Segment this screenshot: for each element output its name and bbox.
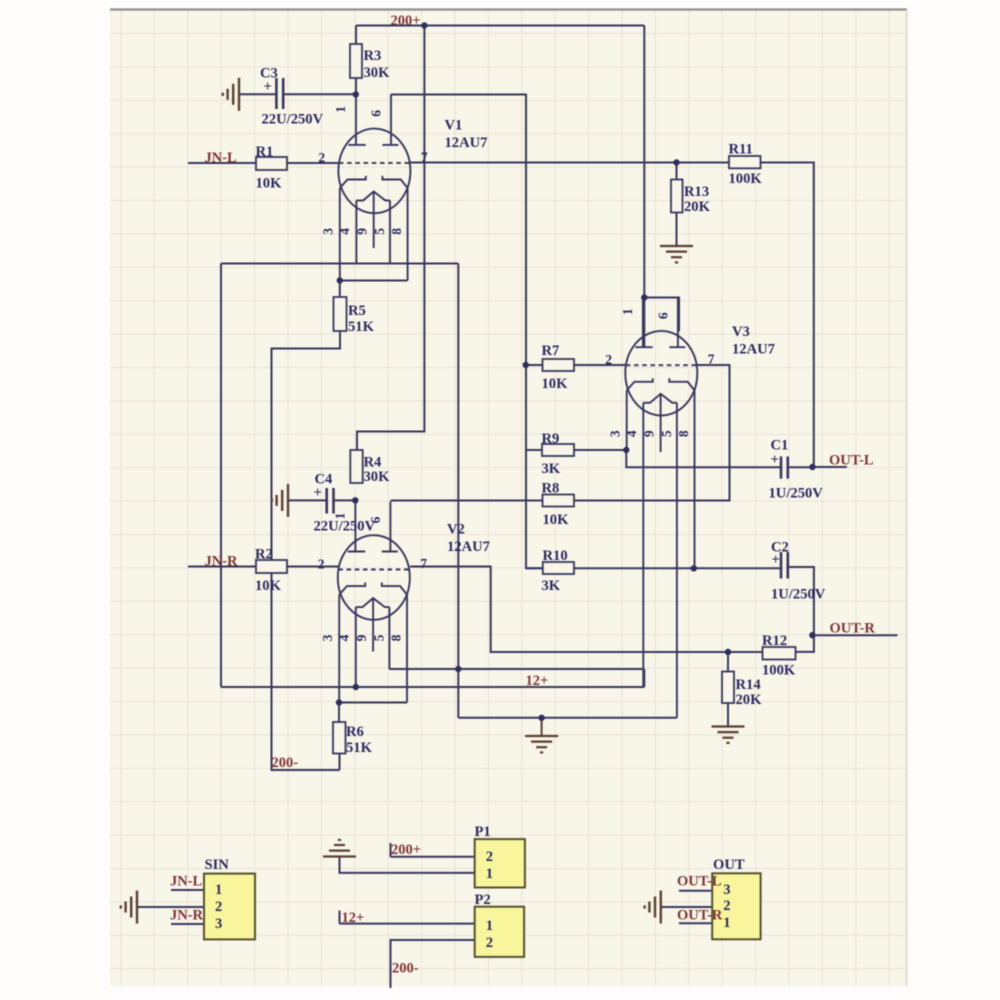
svg-text:P2: P2 [475,892,491,908]
junction R3 / C3 / V1 pin1 [353,91,359,97]
wire heater line A V2 pin5 to V3 pin4 column [389,668,644,670]
svg-text:2: 2 [605,352,612,367]
svg-text:6: 6 [369,110,384,117]
junction R10 / V3 pin8 / C2 [691,565,697,571]
junction OUT-L node [809,464,815,470]
svg-text:3: 3 [215,916,222,932]
svg-text:30K: 30K [364,469,391,485]
resistor R11 body [729,156,761,168]
wire R13 top lead [676,163,678,180]
schematic sheet background [110,9,908,986]
junction 200+ rail / R4 drop [421,22,427,28]
svg-text:8: 8 [389,228,404,235]
resistor R7 body [543,359,575,371]
svg-text:V3: V3 [732,324,750,340]
triode tube V1 12AU7 [338,95,410,281]
svg-text:200-: 200- [392,961,419,977]
svg-text:20K: 20K [736,692,763,708]
wire R10 left lead [526,567,543,569]
svg-text:C4: C4 [315,472,334,488]
svg-text:JN-R: JN-R [170,908,204,924]
ground (heater rail) [525,736,558,752]
svg-text:R5: R5 [348,303,366,319]
svg-text:9: 9 [354,228,369,235]
svg-text:1: 1 [215,882,222,898]
svg-text:7: 7 [708,352,715,367]
svg-text:2: 2 [215,899,222,915]
svg-text:12+: 12+ [526,673,549,689]
svg-text:4: 4 [337,228,352,235]
wire JN-R to SIN pin 3 [171,923,204,925]
svg-text:1: 1 [723,915,730,931]
svg-text:JN-R: JN-R [205,554,239,570]
connector SIN box [204,874,255,940]
svg-text:SIN: SIN [205,857,230,873]
svg-text:1: 1 [333,106,348,113]
wire V3 cathode down to C1 [626,450,780,467]
wire R13 bottom to ground [676,213,678,246]
wire V2 cathode bus pins 3-8 [339,702,407,704]
junction OUT-R node [809,632,815,638]
svg-text:R10: R10 [543,548,568,564]
svg-text:7: 7 [421,149,428,164]
resistor R3 body [350,44,362,78]
svg-text:9: 9 [354,634,369,641]
svg-text:1: 1 [486,866,493,882]
wire V3 plate junction jog to pin6 [644,298,679,332]
svg-text:1: 1 [486,918,493,934]
svg-text:R11: R11 [729,142,753,158]
ground (OUT shield) [645,891,661,924]
svg-text:V1: V1 [445,118,463,134]
svg-text:200+: 200+ [391,13,421,29]
svg-text:OUT-L: OUT-L [829,453,874,469]
svg-text:2: 2 [486,849,493,865]
wire ground to P1 pin 1 [340,857,475,873]
resistor R5 body [334,297,347,331]
wire ground to OUT pin 2 [661,906,712,908]
svg-text:8: 8 [676,430,691,437]
svg-text:3K: 3K [542,461,561,477]
svg-text:3K: 3K [542,578,561,594]
svg-text:5: 5 [659,430,674,437]
svg-text:3: 3 [320,634,335,641]
wire JN-R stub to R2 [188,566,256,568]
resistor R4 body [350,450,362,483]
svg-text:R13: R13 [684,184,709,200]
wire V2 pin7 grid-B drop to R12 line [410,567,762,653]
resistor R6 body [333,722,346,754]
wire JN-L stub to R1 [188,162,256,164]
wire OUT-R stub [812,634,897,636]
svg-text:2: 2 [318,557,325,572]
wire R5 top lead [339,281,341,298]
svg-text:JN-L: JN-L [170,874,203,890]
wire left drop junction to R7 [526,364,543,366]
wire 12+ to P2 pin 1 [340,911,475,924]
wire R6 top to V2 cathode bus [338,703,340,723]
wire heater loop left side down to 12+ rail [220,264,222,688]
triode tube V3 12AU7 [625,297,697,718]
wire R7 to V3 grid pin2 [574,364,626,366]
svg-text:+: + [771,452,779,468]
wire OUT-R to OUT pin 1 [679,922,712,924]
svg-text:4: 4 [624,430,639,437]
connector P1 box [475,839,525,887]
wire R14 bottom to ground [727,703,729,726]
wire R3 top lead [355,26,357,45]
svg-text:3: 3 [607,430,622,437]
wire V1 cathode bus pins 3-8 [340,280,408,282]
junction heater line A / gnd drop [455,666,461,672]
connector OUT box [712,873,760,939]
ground (C3 reference) [223,78,239,111]
wire R5 bottom to 200- drop [272,331,341,770]
wire 12+ rail line B [221,669,644,687]
junction R13 top on V1 pin7 net [673,159,679,165]
svg-text:R7: R7 [542,343,560,359]
resistor R9 body [542,444,574,456]
resistor R14 body [722,672,734,704]
svg-text:R14: R14 [736,677,762,693]
svg-text:8: 8 [388,634,403,641]
svg-text:P1: P1 [475,824,491,840]
svg-text:R1: R1 [256,144,274,160]
svg-text:2: 2 [486,935,493,951]
wire R1 to V1 grid pin2 [287,162,339,164]
svg-text:200+: 200+ [391,842,421,858]
svg-text:6: 6 [655,312,670,319]
svg-text:12+: 12+ [342,910,365,926]
resistor R8 body [543,495,575,507]
resistor R12 body [763,647,796,660]
capacitor C2 plates [781,552,788,579]
junction V1 pin6 drop / R7 [523,362,529,368]
wire R14 top lead [727,652,729,672]
capacitor C4 plates [327,488,334,514]
svg-text:12AU7: 12AU7 [732,342,775,358]
junction V1 cathode / R5 [337,277,343,283]
wire ground stem on line C [541,718,543,736]
connector P2 box [475,907,524,957]
junction line C ground [538,715,544,721]
wire V2 pin6 plate-B to R8 line [391,500,543,502]
triode tube V2 12AU7 [338,502,410,703]
wire V3 pin7 grid-B down to R8 [574,365,730,501]
ground (SIN shield) [121,891,137,924]
svg-text:5: 5 [371,634,386,641]
wire V3 pin1 plate lead [643,298,645,348]
svg-text:3: 3 [723,882,730,898]
svg-text:1U/250V: 1U/250V [769,486,824,502]
svg-text:12AU7: 12AU7 [447,539,490,555]
svg-text:9: 9 [641,430,656,437]
svg-text:100K: 100K [762,663,796,679]
svg-text:3: 3 [320,228,335,235]
svg-text:OUT-R: OUT-R [830,621,876,637]
wire C3 right plate to V1 plate junction [284,93,356,95]
capacitor C1 plates [781,457,788,479]
svg-text:2: 2 [723,898,730,914]
svg-text:22U/250V: 22U/250V [262,112,324,128]
wire OUT-L to OUT pin 3 [679,890,712,892]
svg-text:R2: R2 [255,547,273,563]
ground (below R13) [660,246,693,262]
capacitor C3 plates [276,78,283,109]
wire ground to C3 left plate [239,93,276,95]
svg-text:1: 1 [620,308,635,315]
svg-text:100K: 100K [729,171,763,187]
svg-text:R3: R3 [364,48,382,64]
wire V1 pin7 grid-B to R11 [410,162,729,164]
junction R9 / V3 pin3 [623,447,629,453]
junction R12 / R14 / V3 grid net [725,649,731,655]
wire C4 right plate to V2 plate junction [333,499,355,501]
wire V1 pin6 plate-B to right drop [391,95,543,569]
wire C1 right plate to OUT-L junction [787,466,812,468]
svg-text:R6: R6 [346,724,364,740]
svg-text:R12: R12 [762,633,787,649]
wire R11 right to OUT-L node [761,163,814,468]
svg-text:JN-L: JN-L [205,150,238,166]
svg-text:OUT: OUT [713,857,745,873]
svg-text:22U/250V: 22U/250V [314,519,376,535]
svg-text:4: 4 [336,634,351,641]
wire R10 right to C2 [574,567,781,569]
wire OUT-L stub [813,466,848,468]
svg-text:7: 7 [420,556,427,571]
svg-text:R9: R9 [542,431,560,447]
svg-text:10K: 10K [255,578,282,594]
svg-text:51K: 51K [346,740,373,756]
junction 12+ rail / V2 pin4 [353,684,359,690]
svg-text:C1: C1 [771,438,789,454]
wire ground to SIN pin 2 [137,906,204,908]
svg-text:51K: 51K [348,319,375,335]
resistor R10 body [543,562,574,574]
wire heater loop right side down to gnd rail [457,264,459,718]
wire V1 heater loop top [221,263,458,265]
wire 200+ to P1 pin 2 [391,843,475,857]
wire P2 pin 2 to 200- drop [391,940,475,988]
junction R4 / C4 / V2 pin1 [352,497,358,503]
svg-text:C3: C3 [260,66,278,82]
svg-text:20K: 20K [684,199,711,215]
wire R6 bottom lead [339,754,341,771]
svg-text:1U/250V: 1U/250V [771,587,826,603]
svg-text:10K: 10K [256,176,283,192]
svg-text:C2: C2 [771,540,789,556]
wire ground rail line C [458,717,677,719]
svg-text:12AU7: 12AU7 [445,135,488,151]
wire C2 right plate down to OUT-R junction [788,567,814,652]
svg-text:10K: 10K [543,512,570,528]
svg-text:OUT-L: OUT-L [677,874,722,890]
wire JN-L to SIN pin 1 [171,889,204,891]
junction V3 plate node [641,294,647,300]
sheet top border [110,8,907,10]
svg-text:2: 2 [318,150,325,165]
wire C4 ground to left plate [288,499,327,501]
junction V2 cathode / R6 [336,699,342,705]
resistor R13 body [671,180,683,213]
ground (at P1) [323,840,356,857]
wire from 200+ rail down to R4 (net to V2 plate) [357,26,424,451]
wire R3 bottom to junction [355,78,357,95]
svg-text:V2: V2 [447,522,465,538]
ground (C4 reference) [272,484,288,517]
resistor R1 body [256,157,287,170]
svg-text:10K: 10K [542,376,569,392]
svg-text:200-: 200- [272,755,299,771]
wire R2 to V2 grid pin2 [287,566,338,568]
wire R9 right to V3 cathode [574,449,626,451]
wire R9 left lead [526,449,542,451]
ground (below R14) [712,727,745,743]
svg-text:OUT-R: OUT-R [677,908,723,924]
svg-text:R8: R8 [542,481,560,497]
svg-text:30K: 30K [364,65,391,81]
svg-text:5: 5 [372,228,387,235]
wire 200+ supply rail [356,25,644,27]
resistor R2 body [256,560,287,573]
wire 200+ drop to V3 plate junction [643,26,645,298]
